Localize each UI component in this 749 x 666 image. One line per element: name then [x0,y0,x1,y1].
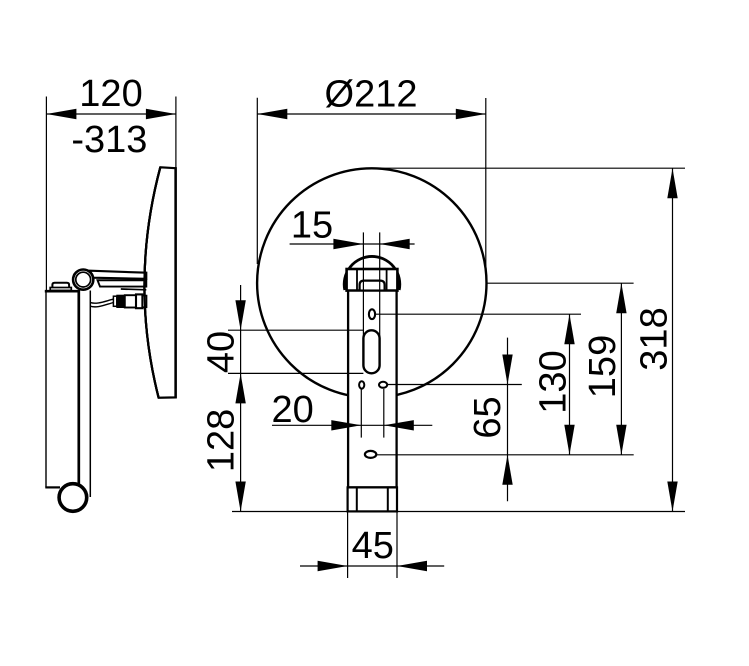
svg-text:40: 40 [201,331,243,373]
ext line d212 right [485,98,487,272]
dim line d212 [257,113,486,115]
svg-text:15: 15 [291,204,333,246]
svg-text:65: 65 [467,396,509,438]
arrow 20 left [331,420,361,430]
bottom collar [348,487,397,511]
svg-text:318: 318 [634,307,676,370]
arm vertical tube right line [89,291,91,498]
bottom right hole [379,382,387,388]
arrow 159 top [616,283,626,313]
arrow 318 bottom [667,482,677,512]
wall post column (front) [348,291,397,488]
collar inner right line [386,269,388,291]
ext line lower hole [376,454,633,456]
collar inner left line [356,269,358,291]
arrow 15 right [380,239,410,249]
arrow 318 top [667,168,677,198]
dome cap [344,256,400,290]
plug collar [113,296,116,306]
ext line d212 left [256,98,258,264]
bottom ball end [59,484,87,512]
ext line 120 left [45,97,47,292]
mirror front curve over plug [144,167,160,397]
wall column (side view) [45,290,79,487]
ext line baseline bottom [232,511,685,513]
arrow 130 bottom [564,425,574,455]
ext line 65 top (bottom right hole) [387,384,522,386]
plug body [125,295,136,307]
arm bracket line [121,288,147,291]
ext line 45 left [347,510,349,578]
ext line mirror center [487,282,634,284]
arrow d212 right [456,109,486,119]
arrow 130 top [564,314,574,344]
cable to plug [90,299,113,303]
arrow 128 bottom [235,482,245,512]
ext line 15 right [379,232,381,336]
plug end cap [136,294,142,308]
arrow d212 left [257,109,287,119]
mirror lens side profile [144,167,175,398]
arrow 65 top [502,355,512,385]
arrow 65 bottom [502,455,512,485]
bottom left hole [359,381,364,388]
svg-text:120: 120 [79,73,142,115]
ext line 40 top [228,329,363,331]
arrow 45 right [397,561,427,571]
dim line 159 [620,283,622,455]
plug nose [142,296,146,308]
arrow 45 left [318,561,348,571]
dim line 15 [290,243,415,245]
pivot ball joint [73,270,93,290]
arrow 20 right [384,420,414,430]
arrow 120 right [146,109,176,119]
dim line 20 [272,424,432,426]
mirror circle [257,168,486,397]
dim line 40-128 vertical [240,285,242,512]
dim line 65 [507,338,509,502]
dim line 318 [672,168,674,511]
ext line 20 left [360,389,362,438]
ext line 120 right [175,97,177,169]
ext line circle top [372,167,685,169]
svg-text:-313: -313 [71,119,147,161]
ext line top hole [375,313,581,315]
arm upper bar [90,271,146,279]
ext line 45 right [396,510,398,578]
arrow 120 left [46,109,76,119]
redraw mirror front curve over arm ends [144,167,160,397]
svg-text:Ø212: Ø212 [325,74,418,116]
svg-text:159: 159 [582,335,624,398]
arrow 159 bottom [616,425,626,455]
dim line 120 [46,113,176,115]
ext line 40 bottom [228,372,363,374]
dim line 45 [300,565,444,567]
arrow 15 left [333,239,363,249]
svg-text:20: 20 [271,389,313,431]
plug black block [117,295,125,307]
arm lower bar [98,280,147,286]
column cap bump [50,283,71,291]
ext line 15 left [362,232,364,336]
lower hole [365,451,376,458]
svg-text:128: 128 [201,409,243,472]
cap collar [347,269,398,291]
svg-text:45: 45 [352,525,394,567]
long slot [363,330,379,373]
svg-text:130: 130 [533,350,575,413]
arrow 40 top [235,300,245,330]
ext line 20 right [383,389,385,438]
collar slot [360,281,385,290]
dim line 130 [569,314,571,455]
arrow 40-128 middle [235,373,245,403]
top hole [369,309,375,319]
